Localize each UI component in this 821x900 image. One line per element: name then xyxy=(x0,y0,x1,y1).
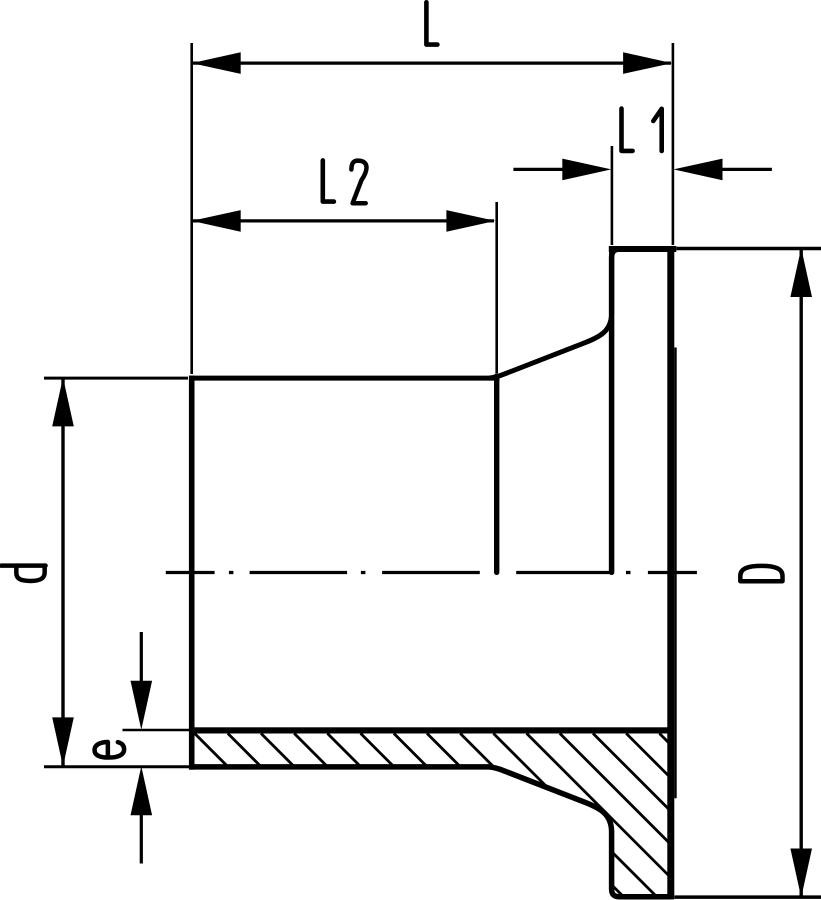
dimension L1 leader left xyxy=(513,168,566,171)
arrowhead d top xyxy=(52,377,74,426)
dimension d line xyxy=(61,379,64,766)
dimension e shaft bottom xyxy=(140,812,143,864)
label D (rotated) xyxy=(740,566,782,581)
dimension D line xyxy=(800,250,803,896)
label L 1 xyxy=(622,109,633,151)
extension line pipe OD top xyxy=(44,377,188,380)
arrowhead L1 left xyxy=(562,159,611,181)
dimension e shaft top xyxy=(140,632,143,684)
label e (rotated) xyxy=(95,742,125,758)
arrowhead L2 right xyxy=(446,210,495,232)
extension line at hub xyxy=(611,146,614,245)
section hatching (wall cross-section) xyxy=(195,733,821,898)
label L 2 xyxy=(323,160,334,201)
extension line left (pipe end) xyxy=(190,43,193,374)
arrowhead D bottom xyxy=(790,849,812,898)
arrowhead L right xyxy=(623,52,672,74)
arrowhead d bottom xyxy=(52,717,74,766)
dimension L2 line xyxy=(193,219,494,222)
lower outline with transition curve and flange bottom xyxy=(189,767,671,897)
extension line pipe OD bottom xyxy=(44,765,190,768)
bore line (section) xyxy=(189,727,671,733)
dimension L line xyxy=(193,61,671,64)
flange hub left edge xyxy=(612,249,620,572)
arrowhead D top xyxy=(790,248,812,297)
arrowhead e bottom xyxy=(131,766,153,815)
pipe end left edge xyxy=(189,376,195,770)
label d (rotated) xyxy=(1,566,45,581)
arrowhead L left xyxy=(192,52,241,74)
arrowhead e top xyxy=(131,681,153,730)
sealing face raised edge xyxy=(674,348,676,799)
extension line flange OD top xyxy=(676,247,821,250)
flange top edge xyxy=(609,246,677,252)
arrowhead L2 left xyxy=(192,210,241,232)
upper transition curve to flange xyxy=(489,252,612,378)
flange sealing face xyxy=(667,246,674,899)
pipe spigot top outline xyxy=(189,376,499,381)
extension line right (flange face) xyxy=(672,43,675,245)
centerline (dash-dot axis) xyxy=(166,571,697,574)
extension line at joint xyxy=(495,202,498,373)
arrowhead L1 right xyxy=(674,159,723,181)
label L xyxy=(426,2,437,44)
dimension L1 leader right xyxy=(719,168,772,171)
extension line bore xyxy=(123,729,191,732)
extension line flange OD bottom xyxy=(675,895,821,899)
spigot/hub joint line xyxy=(494,376,499,573)
